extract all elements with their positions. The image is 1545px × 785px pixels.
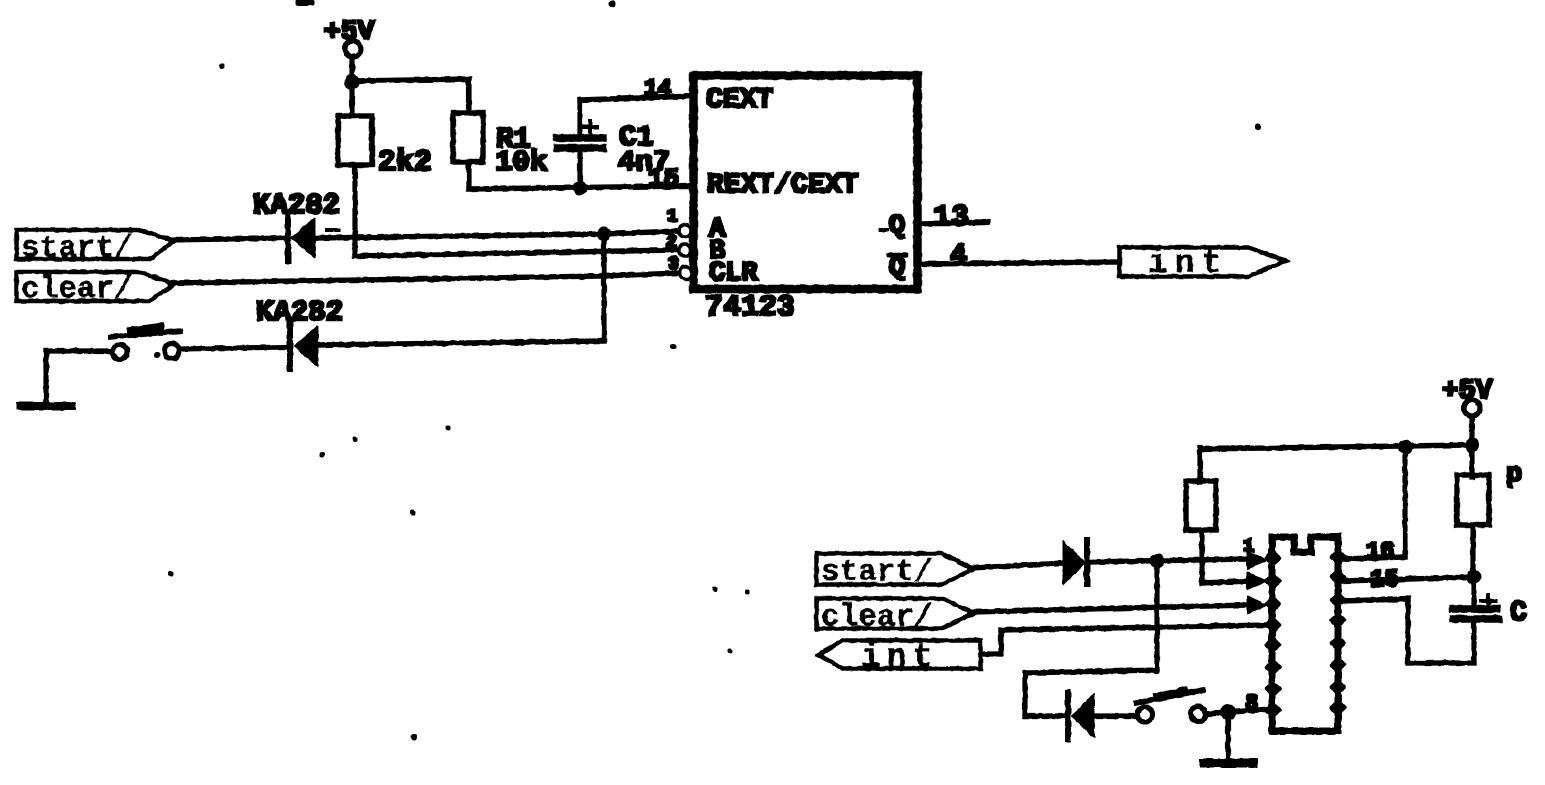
- svg-text:2k2: 2k2: [378, 146, 432, 180]
- svg-text:4: 4: [950, 241, 967, 272]
- svg-text:p: p: [1506, 460, 1522, 490]
- svg-text:int: int: [861, 639, 938, 676]
- svg-text:8: 8: [1245, 691, 1258, 716]
- svg-text:+5V: +5V: [324, 17, 375, 48]
- svg-text:1: 1: [667, 207, 678, 227]
- svg-text:CLR: CLR: [709, 259, 758, 289]
- svg-text:16: 16: [1366, 539, 1395, 566]
- svg-text:74123: 74123: [705, 291, 795, 325]
- svg-text:int: int: [1148, 245, 1228, 282]
- svg-text:C: C: [1510, 598, 1527, 629]
- svg-text:KA282: KA282: [253, 189, 340, 222]
- svg-text:1: 1: [1243, 537, 1254, 557]
- svg-text:+5V: +5V: [1442, 376, 1493, 407]
- svg-text:Q: Q: [889, 254, 905, 284]
- svg-text:15: 15: [1370, 567, 1399, 594]
- svg-text:clear/: clear/: [821, 600, 933, 635]
- svg-text:KA282: KA282: [256, 296, 343, 329]
- svg-text:clear/: clear/: [21, 272, 133, 307]
- svg-text:2: 2: [666, 233, 677, 253]
- svg-text:13: 13: [933, 201, 969, 235]
- svg-text:Q: Q: [889, 212, 905, 242]
- svg-text:3: 3: [668, 255, 679, 275]
- svg-text:15: 15: [648, 164, 679, 194]
- svg-text:CEXT: CEXT: [706, 85, 773, 116]
- svg-text:REXT/CEXT: REXT/CEXT: [707, 170, 858, 201]
- svg-text:start/: start/: [21, 231, 133, 266]
- svg-text:14: 14: [644, 76, 672, 102]
- svg-text:10k: 10k: [495, 146, 547, 179]
